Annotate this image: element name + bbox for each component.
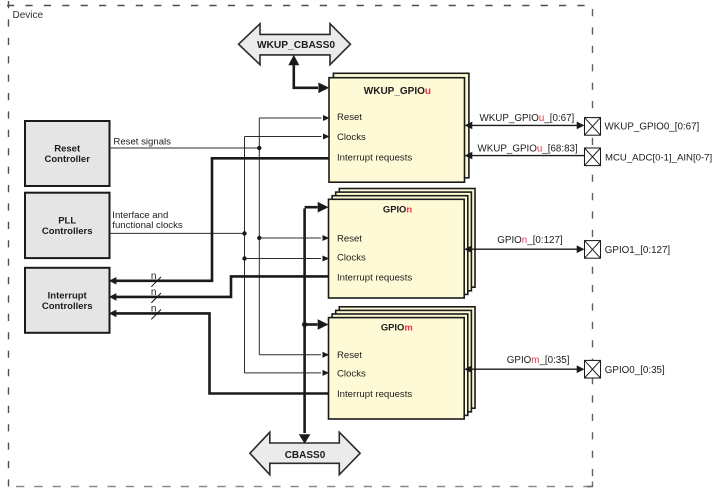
svg-text:WKUP_CBASS0: WKUP_CBASS0 bbox=[257, 40, 335, 51]
junction dot reset signals bbox=[257, 146, 261, 150]
device label bbox=[13, 10, 44, 21]
svg-text:functional clocks: functional clocks bbox=[112, 220, 183, 231]
svg-text:GPIO0_[0:35]: GPIO0_[0:35] bbox=[605, 365, 665, 376]
wire clocks to WKUP_GPIOu bbox=[245, 134, 330, 140]
svg-text:n: n bbox=[151, 287, 157, 298]
svg-text:GPIO1_[0:127]: GPIO1_[0:127] bbox=[605, 245, 671, 256]
svg-text:WKUP_GPIO0_[0:67]: WKUP_GPIO0_[0:67] bbox=[605, 122, 700, 133]
wire reset to WKUP_GPIOu bbox=[259, 115, 329, 121]
pad GPIO0 bbox=[585, 360, 665, 378]
svg-text:GPIOm: GPIOm bbox=[381, 322, 413, 333]
junction dot interface clocks bbox=[242, 231, 246, 235]
wire CBASS0 branch to GPIOm (thick) bbox=[305, 319, 329, 330]
svg-text:Device: Device bbox=[13, 10, 44, 21]
bus width label n3 bbox=[151, 304, 161, 320]
svg-text:CBASS0: CBASS0 bbox=[285, 450, 326, 461]
svg-text:n: n bbox=[151, 304, 157, 315]
block GPIOn (stacked x4) bbox=[329, 189, 476, 299]
wire reset distribution vertical bbox=[258, 118, 260, 355]
svg-text:GPIOn_[0:127]: GPIOn_[0:127] bbox=[497, 235, 563, 246]
bus arrow CBASS0 bbox=[250, 432, 360, 475]
svg-text:Reset: Reset bbox=[337, 350, 362, 361]
junction dot reset to GPIOn bbox=[257, 236, 261, 240]
svg-text:GPIOm_[0:35]: GPIOm_[0:35] bbox=[507, 355, 570, 366]
svg-text:Controller: Controller bbox=[45, 154, 91, 165]
block Interrupt Controllers bbox=[25, 268, 110, 333]
svg-text:Controllers: Controllers bbox=[42, 226, 93, 237]
wire reset to GPIOm bbox=[259, 352, 329, 358]
svg-text:GPIOn: GPIOn bbox=[383, 203, 412, 214]
wire GPIOn_[0:127] (bidirectional) bbox=[464, 235, 584, 253]
junction dot clocks to GPIOn bbox=[242, 256, 246, 260]
pad MCU_ADC bbox=[585, 148, 713, 166]
wire CBASS0 spine (thick) bbox=[299, 202, 329, 444]
bus width label n2 bbox=[151, 287, 161, 303]
bus width label n1 bbox=[151, 271, 161, 287]
svg-text:Controllers: Controllers bbox=[42, 301, 93, 312]
svg-text:PLL: PLL bbox=[58, 216, 76, 227]
wire interface/functional clocks (thin) bbox=[110, 210, 245, 234]
svg-text:Reset: Reset bbox=[337, 233, 362, 244]
block GPIOm (stacked x4) bbox=[329, 307, 476, 419]
wire GPIOm_[0:35] (bidirectional) bbox=[464, 355, 584, 373]
junction dot CBASS0/GPIOm bbox=[302, 322, 307, 327]
block Reset Controller bbox=[25, 121, 110, 186]
pad WKUP_GPIO0 bbox=[585, 118, 700, 136]
wire clocks to GPIOm bbox=[245, 370, 330, 376]
wire WKUP_GPIOu interrupt requests (thick) bbox=[109, 158, 329, 284]
wire GPIOm interrupt requests (thick) bbox=[109, 310, 329, 394]
svg-text:WKUP_GPIOu_[0:67]: WKUP_GPIOu_[0:67] bbox=[480, 113, 575, 124]
svg-text:Interrupt requests: Interrupt requests bbox=[337, 152, 412, 163]
svg-text:Clocks: Clocks bbox=[337, 132, 366, 143]
wire GPIOn interrupt requests (thick) bbox=[109, 276, 329, 300]
svg-text:Reset signals: Reset signals bbox=[113, 136, 171, 147]
wire WKUP_GPIOu_[0:67] (bidirectional) bbox=[465, 113, 585, 129]
svg-text:WKUP_GPIOu_[68:83]: WKUP_GPIOu_[68:83] bbox=[478, 144, 578, 155]
svg-text:Reset: Reset bbox=[54, 144, 81, 155]
svg-text:n: n bbox=[151, 271, 157, 282]
block PLL Controllers bbox=[25, 193, 110, 258]
wire clocks distribution vertical bbox=[244, 137, 246, 373]
wire WKUP_GPIOu_[68:83] (input) bbox=[465, 144, 585, 160]
wire reset to GPIOn bbox=[259, 235, 329, 241]
wire reset signals (thin) bbox=[110, 136, 260, 148]
bus arrow WKUP_CBASS0 bbox=[239, 24, 351, 65]
pad GPIO1 bbox=[585, 241, 671, 259]
svg-text:Interrupt: Interrupt bbox=[48, 291, 88, 302]
svg-text:Reset: Reset bbox=[337, 112, 362, 123]
wire WKUP_CBASS0 to WKUP_GPIOu (thick) bbox=[288, 55, 329, 93]
wire clocks to GPIOn bbox=[245, 256, 330, 262]
block WKUP_GPIOu (stacked x2) bbox=[329, 73, 469, 182]
svg-text:MCU_ADC[0-1]_AIN[0-7]: MCU_ADC[0-1]_AIN[0-7] bbox=[605, 153, 712, 164]
svg-text:Clocks: Clocks bbox=[337, 368, 366, 379]
svg-text:Clocks: Clocks bbox=[337, 252, 366, 263]
svg-text:Interrupt requests: Interrupt requests bbox=[337, 389, 412, 400]
svg-text:WKUP_GPIOu: WKUP_GPIOu bbox=[364, 86, 431, 97]
svg-text:Interrupt requests: Interrupt requests bbox=[337, 272, 412, 283]
